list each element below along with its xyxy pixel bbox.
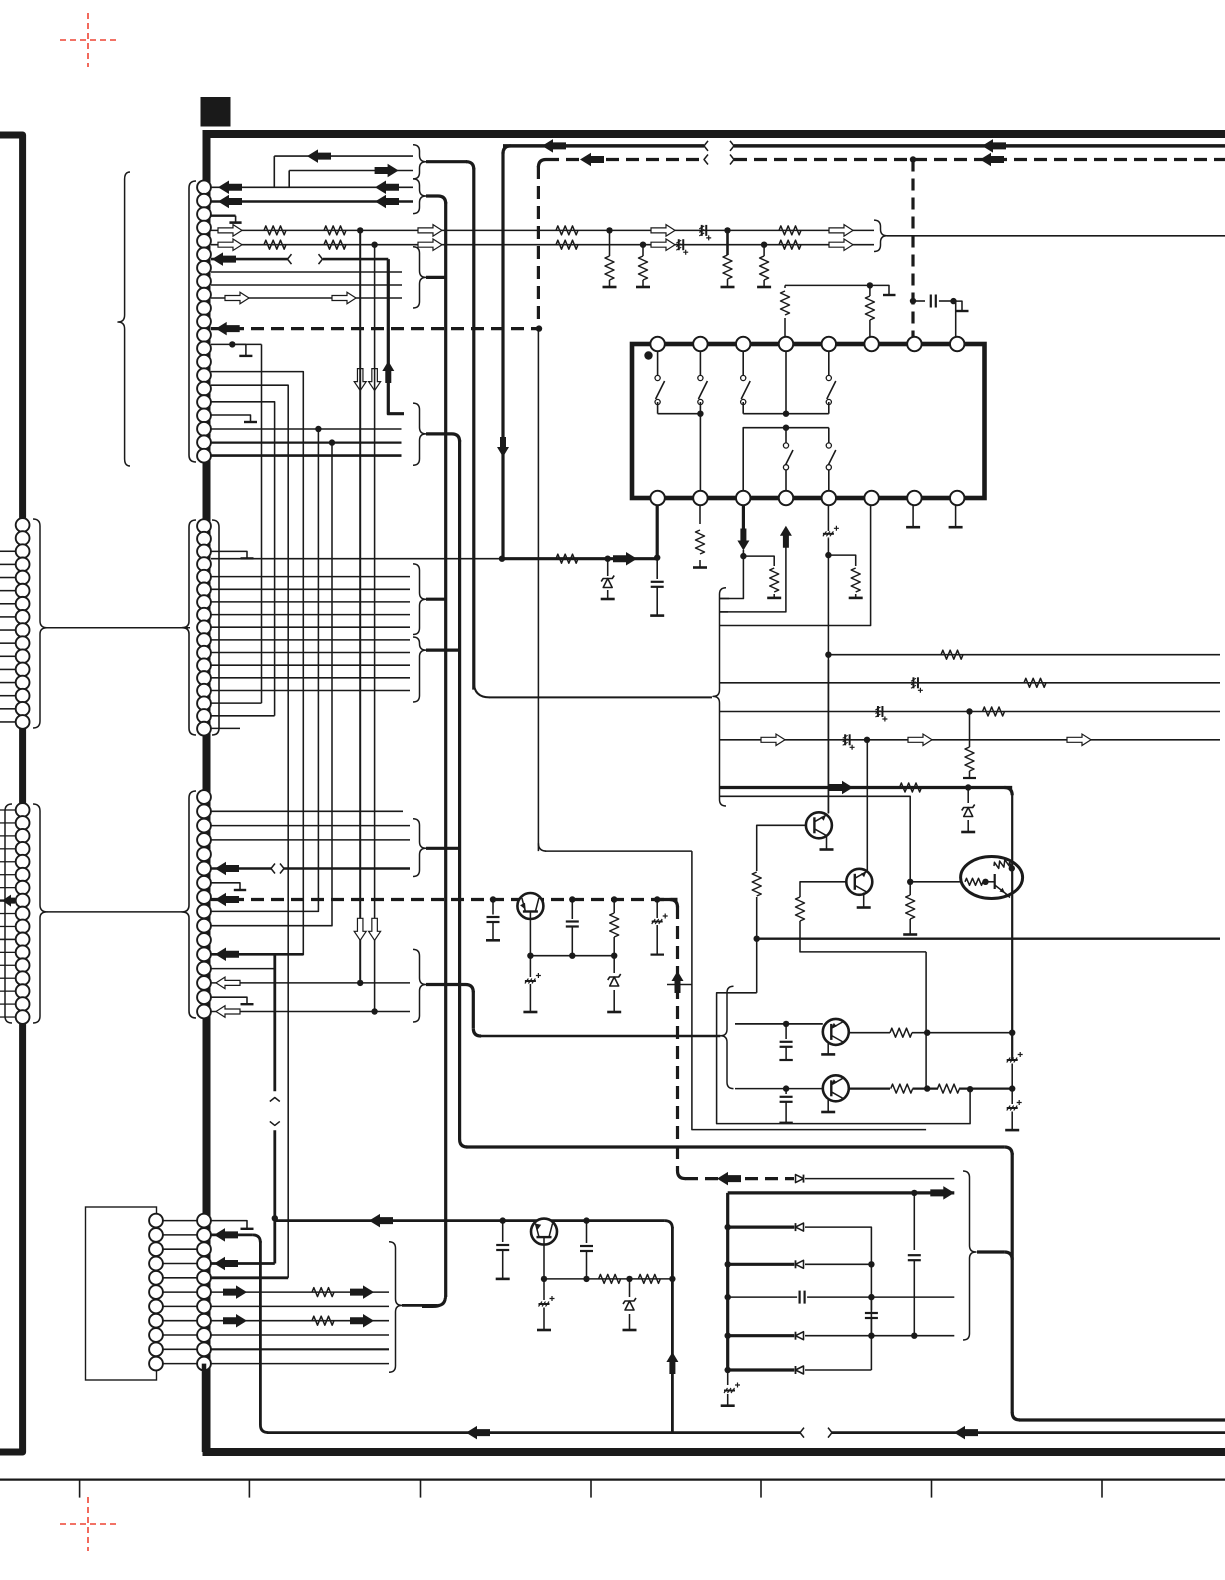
connector CN1 pin 11: [197, 315, 211, 329]
bus y938 to right edge: [757, 938, 1220, 940]
connector CN3 bracket left: [182, 791, 196, 1018]
cap at x586: [586, 1221, 588, 1243]
CN4 row5 wire: [211, 1276, 288, 1279]
electrolytic right column lower: [1011, 1089, 1013, 1104]
connector CN1 pin 17: [197, 395, 211, 409]
diode row6: [796, 1366, 804, 1374]
elcap row y740: [844, 734, 846, 745]
connector CN4 right pin 4: [197, 1257, 211, 1271]
thin feed from connector y558: [211, 558, 502, 560]
wire stub: [0, 874, 16, 876]
connector CN1 pin 19: [197, 422, 211, 436]
resistor row 4 at x609: [606, 227, 612, 233]
transistor Q6: [823, 1075, 849, 1101]
left connector CN-A pin 16: [16, 715, 30, 729]
electrolytic cap row 4: [701, 225, 703, 236]
connector CN3 pin 8: [197, 890, 211, 904]
CN2 row wire to brace A: [211, 588, 410, 590]
row 8 wire: [211, 284, 402, 286]
row y740: [719, 739, 1220, 741]
connector CN2 pin 3: [197, 545, 211, 559]
IC U1 top pin 5: [822, 337, 836, 351]
connector CN3 pin 6: [197, 862, 211, 876]
thin vertical x538 lower: [537, 329, 539, 852]
open arrow row 9: [225, 292, 249, 304]
connector CN1 pin 20: [197, 435, 211, 449]
left connector CN-B pin 11: [16, 933, 30, 947]
resistor in y558: [556, 554, 578, 563]
wire stub: [0, 1016, 16, 1018]
vertical x260: [259, 1241, 262, 1425]
connector CN4 right pin 7: [197, 1300, 211, 1314]
CN2 row wire to brace B: [211, 652, 410, 654]
bus x446 corner to bottom brace: [432, 1295, 445, 1306]
corner y787 to x1012: [1004, 788, 1012, 796]
dashed bus from CN3 to PNP cluster: [211, 898, 678, 901]
IC internal switch 1: [657, 351, 659, 375]
bus y1433: [267, 1431, 800, 1434]
left connector CN-A pin 9: [16, 623, 30, 637]
electrolytic at x530 to ground: [529, 956, 531, 977]
arrow to pin1: [613, 552, 637, 566]
vertical x716 route: [717, 993, 971, 1124]
CN3 row 12 thick wire: [211, 953, 303, 956]
arrow on W2: [375, 164, 399, 178]
Q2 base resistor: [796, 897, 805, 921]
IC U1 top pin 4: [779, 337, 793, 351]
zener below x629: [629, 1279, 631, 1297]
IC pin8 wire up: [955, 301, 957, 344]
brace B5: [413, 637, 426, 702]
short link y984.5: [667, 984, 692, 986]
resistor to ground row 4: [726, 230, 729, 255]
IC U1 top pin 8: [950, 337, 964, 351]
CN3 row 3 wire: [211, 825, 410, 827]
left connector CN-B pin 14: [16, 971, 30, 985]
IC U1 bottom pin 15: [907, 491, 921, 505]
IC internal bus 2: [743, 428, 829, 498]
transistor Q2: [846, 869, 872, 895]
open down arrows pair lower: [354, 918, 366, 940]
wire stub: [0, 616, 16, 618]
junction: [371, 242, 377, 248]
CN3 row 4 wire: [211, 839, 410, 841]
wire stub: [0, 682, 16, 684]
brace B4: [413, 819, 426, 877]
CN3 row 6 thick wire with break: [211, 867, 271, 870]
brace B3: [413, 403, 426, 465]
connector CN3 pin 15: [197, 990, 211, 1004]
left connector CN-B pin 16: [16, 997, 30, 1011]
junction row 4: [724, 227, 730, 233]
transistor Q7: [531, 1219, 557, 1245]
connector CN1 pin 18: [197, 409, 211, 423]
connector CN1 pin 10: [197, 301, 211, 315]
connector CN2 pin 1: [197, 519, 211, 533]
arrow on y146 left: [542, 139, 566, 153]
IC pin3 down arrow: [737, 529, 749, 551]
Q3 emitter: [995, 885, 1005, 893]
open arrows row y740: [761, 734, 785, 746]
down arrow on x503: [497, 437, 509, 457]
IC U1 top pin 3: [736, 337, 750, 351]
wire stub: [0, 887, 16, 889]
left connector CN-A pin 10: [16, 636, 30, 650]
thick vertical x275 lower: [273, 1130, 276, 1263]
wire stub: [0, 951, 16, 953]
resistor: [264, 226, 286, 235]
wire stub: [0, 848, 16, 850]
riser W1: [273, 156, 275, 187]
connector CN4 left pin 11: [149, 1357, 163, 1371]
up arrow on x388: [382, 361, 394, 383]
connector CN2 pin 16: [197, 709, 211, 723]
connector CN4 left pin 1: [149, 1214, 163, 1228]
right brace RB: [713, 588, 726, 806]
left connector CN-B pin 12: [16, 945, 30, 959]
feed line above IC: [785, 284, 870, 286]
arrow y1433 right: [954, 1426, 978, 1440]
CN4 row4 wire: [211, 1262, 275, 1265]
CN2 row wire to brace B: [211, 690, 410, 692]
left connector CN-B pin 8: [16, 894, 30, 908]
CN4 row6 wire: [211, 1291, 389, 1293]
left connector CN-B pin 13: [16, 958, 30, 972]
dashed joint dots: [490, 896, 496, 902]
dashed row 11: [211, 327, 539, 330]
wire stub: [0, 1003, 16, 1005]
connector CN4 pin pair row 7 wire: [163, 1305, 197, 1307]
dashed corner to vertical x677: [657, 898, 677, 901]
dual transistor Q3 package: [961, 857, 1023, 899]
IC U1 bottom pin 9: [650, 491, 664, 505]
IC pin1 index dot: [644, 351, 652, 359]
Q5 emitter ground: [827, 1044, 829, 1055]
CN4 row9 wire: [211, 1334, 389, 1336]
stub at cap right: [954, 301, 963, 311]
CN2 row stub with T: [211, 551, 247, 558]
zener from y558: [605, 556, 611, 562]
connector CN1 pin 8: [197, 274, 211, 288]
brace A: [413, 564, 426, 635]
CN4 row7 wire: [211, 1305, 389, 1307]
transistor Q4 on dashed bus: [517, 893, 543, 919]
wire stub: [0, 835, 16, 837]
zener at x614 to ground: [613, 956, 615, 973]
connector CN3 pin 3: [197, 819, 211, 833]
connector CN4 pin pair row 1 wire: [163, 1220, 197, 1222]
Q2 route vertical x926: [925, 952, 927, 1089]
CN3 row 14 wire: [211, 982, 410, 984]
electrolytic right column upper: [1011, 1033, 1013, 1056]
cap at x493: [492, 900, 494, 915]
wire y851 from x538: [538, 843, 546, 851]
Q2 collector: [866, 740, 868, 872]
corner row2 to x260: [253, 1235, 261, 1243]
bus from brace B4 to x460: [426, 847, 460, 850]
left connector CN-B bracket left: [5, 804, 12, 1023]
connector CN4 pin pair row 5 wire: [163, 1277, 197, 1279]
big left brace for CN1 group: [118, 172, 130, 466]
CN2 row wire to brace B: [211, 664, 410, 666]
arrow on y1221: [369, 1214, 393, 1228]
thick vertical x275 upper: [273, 954, 276, 1091]
resistor: [556, 226, 578, 235]
row 6 wire with break: [211, 258, 288, 261]
main board border top: [203, 130, 1225, 138]
wire stub: [0, 550, 16, 552]
cap at x502 bottom block: [502, 1221, 504, 1242]
connector CN4 right pin 3: [197, 1242, 211, 1256]
dashed wire y159.5: [546, 158, 704, 161]
bus from bank brace: [977, 1250, 1004, 1253]
wire stub: [0, 861, 16, 863]
bus wire y1221 taps: [500, 1217, 506, 1223]
connector CN2 pin 17: [197, 722, 211, 736]
resistor y711 to bar: [969, 712, 971, 748]
left connector CN-A bracket right: [33, 519, 47, 728]
connector CN4 pin pair row 8 wire: [163, 1320, 197, 1322]
CN4 row11 wire: [211, 1363, 389, 1365]
row 17 stub: [211, 415, 251, 422]
open arrow: [651, 239, 675, 251]
connector CN4 pin pair row 9 wire: [163, 1334, 197, 1336]
connector CN4 right pin 1: [197, 1214, 211, 1228]
left connector CN-B pin 9: [16, 907, 30, 921]
connector CN3 pin 11: [197, 933, 211, 947]
connector CN3 pin 12: [197, 947, 211, 961]
connector CN4 pin pair row 3 wire: [163, 1248, 197, 1250]
left connector CN-A pin 6: [16, 584, 30, 598]
CN2 row wire to brace A: [211, 601, 410, 603]
row 16 wire: [211, 402, 275, 716]
wire stub: [0, 577, 16, 579]
connector CN4 left pin 9: [149, 1328, 163, 1342]
dashed wire y1178 with diode: [685, 1177, 794, 1180]
IC U1 bottom pin 12: [779, 491, 793, 505]
connector CN4 right pin 9: [197, 1328, 211, 1342]
connector CN2 pin 11: [197, 646, 211, 660]
vertical x672: [671, 1227, 674, 1433]
node bus y955.7: [530, 955, 614, 957]
connector CN2 bracket right: [212, 520, 219, 735]
IC internal switch 5: [785, 428, 787, 443]
dot on Q1 base node: [754, 936, 760, 942]
resistor row y654: [941, 650, 963, 659]
vertical from row12: [261, 344, 263, 703]
IC pin5 electrolytic: [827, 498, 829, 531]
IC pin1 lead down: [656, 498, 659, 559]
wire W2 to brace: [289, 170, 413, 172]
IC U1 box: [632, 344, 985, 498]
connector CN2 pin 5: [197, 570, 211, 584]
wire from CN-A to CN2: [47, 627, 190, 629]
connector CN4 right pin 11: [197, 1357, 211, 1371]
wire stub with arrow: [0, 899, 16, 901]
connector CN4 left pin 10: [149, 1342, 163, 1356]
row 12 wire: [211, 343, 246, 345]
cap near dashed vertical: [913, 300, 925, 302]
connector CN1 pin 7: [197, 261, 211, 275]
diode row3: [796, 1260, 804, 1268]
left connector CN-B pin 3: [16, 829, 30, 843]
Q7 emitter down: [543, 1237, 545, 1279]
row 4 wire: [211, 229, 728, 231]
riser W2: [288, 171, 290, 188]
ruler tick 7: [1101, 1480, 1103, 1498]
cap at x572: [571, 900, 573, 920]
wire stub: [0, 642, 16, 644]
dashed vertical x913 to IC: [911, 160, 914, 345]
Q3 input resistor: [965, 878, 983, 885]
wire stub: [0, 590, 16, 592]
wire stub: [0, 655, 16, 657]
connector CN4 right pin 2: [197, 1228, 211, 1242]
resistor to ground row 5: [763, 245, 765, 256]
arrow CN3 row12: [215, 948, 239, 962]
dashed corner x538: [538, 160, 546, 168]
row 19 wire: [211, 442, 402, 444]
connector CN2 pin 14: [197, 684, 211, 698]
Q1 base wire: [757, 825, 806, 871]
connector CN1 pin 15: [197, 368, 211, 382]
arrow on dashed right: [980, 153, 1004, 167]
CN3 row 13 wire: [211, 968, 275, 970]
open arrow: [418, 225, 442, 237]
main board border left: [203, 130, 211, 1452]
IC pin8 ground: [955, 498, 957, 527]
bus from CN4 brace: [402, 1304, 437, 1307]
CN3 row 7 stub: [211, 883, 240, 890]
IC U1 bottom pin 13: [822, 491, 836, 505]
transistor Q1: [806, 812, 832, 838]
resistor row y787: [900, 783, 922, 792]
bus from C to x446: [426, 276, 446, 279]
arrow on dashed y1178: [717, 1172, 741, 1186]
IC pin4 up arrow: [780, 526, 792, 548]
connector CN1 bracket left: [189, 181, 196, 462]
connector CN3 pin 13: [197, 962, 211, 976]
connector CN4 right pin 5: [197, 1271, 211, 1285]
bank row6: [725, 1367, 731, 1373]
left connector CN-A pin 14: [16, 689, 30, 703]
connector CN1 pin 6: [197, 248, 211, 262]
section marker square: [201, 97, 231, 127]
row 20 wire: [211, 454, 402, 457]
Q5 collector wire: [849, 1032, 890, 1034]
wire to dual transistor: [910, 881, 961, 883]
open arrow CN3 row16: [216, 1006, 240, 1018]
bank row2: [725, 1224, 731, 1230]
bus y1036 to transistor-pair brace: [481, 1035, 720, 1038]
connector CN4 pin pair row 6 wire: [163, 1291, 197, 1293]
left connector CN-A pin 11: [16, 649, 30, 663]
IC U1 bottom pin 10: [693, 491, 707, 505]
up arrow on dashed x677: [672, 971, 684, 993]
vertical bus x503: [501, 152, 504, 559]
pair row 2: [735, 1088, 823, 1090]
connector CN3 pin 7: [197, 876, 211, 890]
cap from top rail: [913, 1193, 915, 1250]
resistor above IC pin4: [784, 318, 786, 344]
connector CN1 pin 21: [197, 449, 211, 463]
arrows+resistor CN4 row6: [223, 1285, 247, 1299]
left connector CN-A pin 2: [16, 531, 30, 545]
connector CN3 pin 9: [197, 905, 211, 919]
open arrow row 5 right: [829, 239, 853, 251]
wire stub: [0, 695, 16, 697]
bank brace: [963, 1171, 976, 1340]
connector CN4 left pin 8: [149, 1314, 163, 1328]
registration cross bottom-left: [60, 1497, 118, 1551]
connector CN1 pin 5: [197, 234, 211, 248]
vertical bus x460: [458, 440, 461, 1140]
connector CN4 left pin 2: [149, 1228, 163, 1242]
wire stub: [0, 925, 16, 927]
connector CN3 pin 5: [197, 847, 211, 861]
transistor Q5: [823, 1019, 849, 1045]
bank electrolytic: [727, 1372, 729, 1385]
wire stub: [0, 809, 16, 811]
arrow y1433 left: [466, 1426, 490, 1440]
connector CN4 right pin 6: [197, 1285, 211, 1299]
vertical bus x1012 lower: [1011, 1153, 1014, 1413]
bus from B2: [426, 196, 446, 204]
CN4 column lower lead: [202, 1364, 207, 1452]
CN3 row 15 stub: [211, 997, 247, 1004]
row y711: [719, 711, 1220, 713]
connector CN2 pin 2: [197, 532, 211, 546]
left connector CN-B pin 6: [16, 868, 30, 882]
brace CN4: [389, 1242, 402, 1373]
IC pin6 L-wire to brace: [719, 498, 871, 626]
row y598 from IC pin3: [719, 598, 729, 600]
left connector CN-B bracket right: [33, 804, 47, 1023]
main board border bottom: [203, 1448, 1225, 1456]
ruler tick 3: [420, 1480, 422, 1498]
connector CN2 pin 13: [197, 671, 211, 685]
thin row y796: [719, 796, 910, 882]
connector CN4 pin pair row 2 wire: [163, 1234, 197, 1236]
resistor y1279 b: [638, 1274, 660, 1283]
left connector CN-A pin 1: [16, 518, 30, 532]
IC internal bus 1b: [743, 413, 829, 415]
junction: [357, 227, 363, 233]
brace B6: [413, 949, 426, 1022]
connector CN3 pin 16: [197, 1005, 211, 1019]
Q1 collector: [827, 660, 829, 814]
wire y558 to IC pin1: [502, 557, 657, 560]
pin5 lead down to node: [827, 555, 829, 813]
connector CN3 pin 1: [197, 790, 211, 804]
elcap row y711: [877, 706, 879, 717]
diode row5: [796, 1332, 804, 1340]
resistor row 5 at x790: [779, 240, 801, 249]
resistor row y683: [1024, 678, 1046, 687]
cap below row4: [870, 1297, 872, 1310]
wire stub: [0, 668, 16, 670]
IC internal switch 3: [742, 351, 744, 375]
pin3 L-wire to brace: [719, 556, 743, 598]
resistor: [324, 226, 346, 235]
vertical from row18: [211, 429, 318, 911]
Q1 emitter ground: [826, 837, 828, 850]
diode bank top rail: [728, 1191, 955, 1194]
arrow row 2 right: [375, 195, 399, 209]
IC U1 pin circles overdraw: [650, 337, 664, 351]
supply wire y146 with corner to x503: [503, 144, 704, 148]
Q5 collector resistor: [890, 1028, 912, 1037]
